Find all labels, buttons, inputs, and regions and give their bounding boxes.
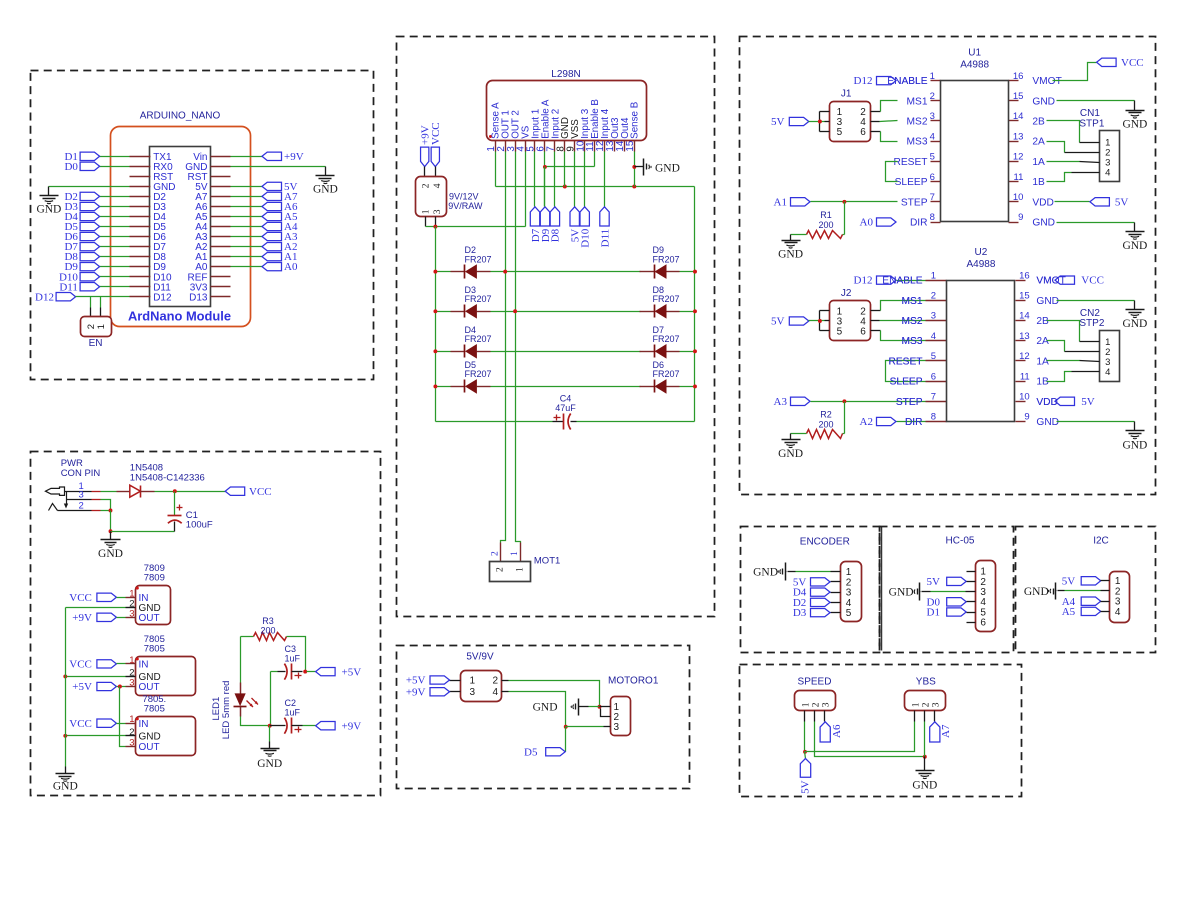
net label A1: [774, 196, 810, 208]
wire J2.4 to MS2: [871, 320, 926, 322]
svg-text:VCC: VCC: [1121, 57, 1144, 69]
svg-text:4: 4: [1115, 607, 1121, 618]
net label D5: [524, 746, 565, 758]
svg-text:1: 1: [930, 71, 935, 82]
svg-text:1: 1: [470, 675, 476, 686]
svg-text:8: 8: [931, 412, 936, 423]
diode D9 FR207: [640, 245, 680, 278]
net label D1: [64, 151, 99, 163]
svg-text:2: 2: [493, 675, 499, 686]
svg-text:FR207: FR207: [465, 294, 492, 304]
junction gnd bus 7805b: [63, 734, 67, 738]
IC U1 A4988: [887, 48, 1062, 229]
wire speed1 to ybs1: [805, 722, 915, 752]
net label 5V (ENCODER): [793, 577, 830, 589]
net label A0: [860, 217, 896, 229]
svg-text:5V: 5V: [799, 780, 811, 794]
wire A1 to STEP: [811, 201, 898, 203]
junction STEP U1: [842, 200, 846, 204]
svg-text:+5V: +5V: [72, 681, 92, 693]
svg-text:5V: 5V: [771, 116, 785, 128]
wire J1 left pins tied: [820, 112, 830, 132]
wire net D6 to pin D6: [100, 236, 130, 238]
wire jack pin2: [101, 510, 111, 512]
svg-text:VCC: VCC: [69, 659, 92, 671]
wire 2B to CN2.1: [1047, 321, 1100, 342]
net label D2: [64, 191, 99, 203]
svg-text:IN: IN: [139, 719, 149, 730]
svg-text:J2: J2: [841, 288, 852, 299]
wire RESET-SLEEP link U2: [886, 361, 926, 382]
svg-text:STP1: STP1: [1079, 119, 1104, 130]
connector HC-05: [976, 561, 996, 632]
net label D0 (HC-05): [927, 596, 976, 608]
svg-text:5V: 5V: [927, 576, 941, 588]
net label 5V: [262, 181, 298, 193]
connector J2: [830, 288, 871, 340]
connector J1: [830, 89, 871, 142]
net label D12 at U2 ENABLE: [854, 275, 926, 287]
wire diode row 2 left: [436, 311, 451, 313]
wire pin 6 to net D9: [544, 167, 546, 207]
junction right bus row 3: [693, 349, 697, 353]
wire diode row 3 middle: [491, 351, 641, 353]
wire SPEED.2 down: [815, 722, 925, 757]
svg-text:DIR: DIR: [910, 218, 928, 229]
net label D11 (under L298N): [599, 207, 611, 248]
wire J2 left pins tied: [820, 311, 830, 331]
IC ARDUINO_NANO chip body with pin names: [150, 147, 211, 307]
svg-text:ENCODER: ENCODER: [800, 537, 850, 548]
wire diode row 1 right: [680, 271, 695, 273]
svg-text:A1: A1: [774, 196, 787, 208]
net label D4 (ENCODER): [793, 587, 830, 599]
net label +9V: [262, 151, 304, 163]
svg-text:L298N: L298N: [551, 69, 580, 80]
svg-text:6: 6: [860, 127, 866, 138]
svg-text:GND: GND: [778, 448, 803, 460]
svg-text:VCC: VCC: [69, 592, 92, 604]
svg-text:2: 2: [496, 567, 506, 572]
svg-text:6: 6: [860, 327, 866, 338]
net label D12: [35, 291, 76, 303]
svg-text:D10: D10: [580, 228, 592, 247]
wire VCC to 7809 IN: [117, 597, 126, 599]
junction C2 row: [268, 724, 272, 728]
ground symbol U1 pin9: [1122, 223, 1147, 252]
svg-text:A0: A0: [860, 217, 874, 229]
svg-text:9: 9: [1024, 412, 1029, 423]
svg-text:D12: D12: [854, 75, 873, 87]
svg-text:7805: 7805: [144, 704, 165, 715]
connector CN1 STP1: [1079, 108, 1119, 181]
svg-text:5V: 5V: [1081, 396, 1095, 408]
svg-text:MS1: MS1: [902, 296, 923, 307]
svg-text:14: 14: [1013, 111, 1024, 122]
svg-text:200: 200: [260, 626, 275, 636]
net label VCC (power in): [225, 486, 271, 498]
svg-text:1uF: 1uF: [285, 708, 301, 718]
svg-text:GND: GND: [36, 203, 61, 215]
junction C3 row: [303, 670, 307, 674]
connector MOT1: [490, 543, 561, 582]
ground symbol below R1: [778, 235, 803, 261]
svg-text:GND: GND: [313, 183, 338, 195]
svg-text:7805: 7805: [144, 644, 165, 655]
svg-text:4: 4: [493, 687, 499, 698]
junction left bus row 1: [433, 270, 437, 274]
svg-text:1A: 1A: [1032, 157, 1045, 168]
wire 2A to CN2.2: [1047, 341, 1100, 352]
svg-text:3: 3: [129, 608, 134, 619]
svg-text:C3: C3: [285, 644, 297, 654]
svg-text:3: 3: [129, 737, 134, 748]
divider line: [881, 527, 883, 651]
svg-text:4: 4: [1105, 167, 1110, 178]
svg-text:MS2: MS2: [902, 316, 923, 327]
wire 1B to CN1.4: [1047, 173, 1100, 182]
svg-text:1B: 1B: [1032, 177, 1045, 188]
wire bottom bus right: [571, 421, 695, 423]
svg-text:OUT: OUT: [139, 682, 160, 693]
junction SPEED 5V: [803, 750, 807, 754]
wire D5 node to MOTORO1 pin3: [566, 726, 604, 728]
svg-text:GND: GND: [1122, 439, 1147, 451]
svg-text:GND: GND: [533, 702, 558, 714]
dashed region frame POWER: [31, 452, 381, 796]
net label D10: [59, 271, 100, 283]
wire 2A to CN1.2: [1047, 142, 1100, 153]
IC U L298N with pins: [486, 81, 647, 152]
net label D3: [64, 201, 99, 213]
wire VMOT to VCC: [1053, 63, 1097, 81]
svg-text:VMOT: VMOT: [1032, 76, 1061, 87]
wire pin15 SenseB down: [634, 152, 636, 187]
svg-text:11: 11: [1020, 371, 1030, 382]
svg-text:SLEEP: SLEEP: [890, 377, 923, 388]
wire diode row 4 right: [680, 386, 695, 388]
svg-text:+9V: +9V: [284, 151, 304, 163]
svg-text:GND: GND: [753, 567, 778, 579]
svg-text:5: 5: [846, 608, 852, 619]
LED LED1 5mm red: [211, 681, 258, 740]
net label 5V (SPEED): [799, 752, 811, 794]
svg-text:GND: GND: [778, 249, 803, 261]
svg-text:2: 2: [930, 91, 935, 102]
svg-text:1: 1: [931, 270, 936, 281]
svg-text:GND: GND: [53, 781, 78, 793]
junction D5 node: [564, 725, 568, 729]
ground symbol U2 pin9: [1122, 422, 1147, 452]
wire pin A3 to net A3: [231, 236, 263, 238]
wire ENCODER gnd: [788, 571, 831, 573]
svg-text:+9V: +9V: [406, 686, 426, 698]
net label A5: [262, 211, 298, 223]
svg-text:7: 7: [930, 192, 935, 203]
net label A5 (I2C): [1062, 606, 1110, 618]
wire diode row 3 left: [436, 351, 451, 353]
net label +9V (C2): [316, 720, 362, 732]
svg-text:VCC: VCC: [69, 718, 92, 730]
wire bottom bus left: [436, 421, 564, 423]
title L298N: [551, 69, 580, 80]
wire jack pin3 jog: [101, 500, 111, 511]
svg-text:47uF: 47uF: [555, 403, 576, 413]
wire diode to VCC: [155, 491, 226, 493]
svg-text:HC-05: HC-05: [946, 536, 975, 547]
svg-text:3: 3: [930, 111, 935, 122]
svg-text:15: 15: [1019, 291, 1030, 302]
wire pin 10 to net D10: [584, 152, 586, 207]
svg-text:I2C: I2C: [1093, 536, 1109, 547]
resistor R3 200: [254, 616, 287, 640]
svg-text:2: 2: [812, 702, 822, 707]
svg-text:D5: D5: [524, 746, 538, 758]
ground symbol MOTORO1: [533, 699, 600, 716]
junction pin8 bus: [563, 185, 567, 189]
wire net D7 to pin D7: [100, 246, 130, 248]
svg-text:EN: EN: [89, 338, 103, 349]
svg-text:STEP: STEP: [901, 197, 928, 208]
wire pin8 GND down: [564, 152, 566, 187]
svg-text:J1: J1: [841, 89, 852, 100]
svg-text:2: 2: [931, 291, 936, 302]
wire net D10 to pin D10: [100, 276, 130, 278]
wire pin1 SenseA down to ground bus: [495, 152, 497, 187]
connector I2C: [1110, 572, 1130, 623]
pin name overlay U2: [889, 296, 923, 428]
svg-text:MS1: MS1: [907, 96, 928, 107]
wire D5 vertical: [565, 727, 567, 752]
wire diode row 1 middle: [491, 271, 641, 273]
wire LED to C2 row: [241, 717, 270, 726]
wire YBS.2 down: [924, 722, 926, 757]
svg-text:A5: A5: [1062, 606, 1076, 618]
svg-text:DIR: DIR: [905, 417, 923, 428]
capacitor C2 1uF: [270, 698, 303, 734]
junction OUT2 row2: [513, 309, 517, 313]
net label 5V at J2: [771, 316, 809, 328]
wire pin A0 to net A0: [231, 266, 263, 268]
ground symbol I2C: [1024, 583, 1057, 600]
svg-text:D0: D0: [64, 161, 78, 173]
svg-text:+5V: +5V: [406, 675, 426, 687]
svg-text:VDD: VDD: [1036, 397, 1058, 408]
svg-text:D12: D12: [153, 292, 172, 303]
svg-text:14: 14: [1019, 311, 1030, 322]
wire 7805a GND to bus: [66, 676, 126, 678]
svg-text:9V/RAW: 9V/RAW: [448, 201, 483, 211]
svg-text:+9V: +9V: [342, 720, 362, 732]
wire diode row 1 left: [436, 271, 451, 273]
svg-text:4: 4: [1105, 367, 1110, 378]
diode D4 FR207: [451, 325, 492, 358]
svg-text:1A: 1A: [1036, 356, 1049, 367]
wire +9V to 7809 OUT: [117, 617, 126, 619]
capacitor C1 100uF: [168, 492, 213, 532]
net label D9: [64, 261, 99, 273]
dashed region frame I2C: [1016, 527, 1156, 653]
regulator 7805 second: [126, 694, 196, 756]
svg-text:R1: R1: [820, 210, 832, 220]
title ARDUINO_NANO: [140, 110, 221, 121]
svg-text:A2: A2: [860, 416, 873, 428]
wire pin 5V to net 5V: [231, 186, 263, 188]
svg-text:2: 2: [86, 324, 97, 329]
svg-text:16: 16: [1019, 270, 1030, 281]
ground symbol ENCODER: [753, 563, 786, 581]
connector EN: [81, 308, 112, 350]
pin stubs ARDUINO_NANO: [130, 157, 231, 297]
module body U ARDUINO_NANO outline: [111, 127, 251, 327]
junction gnd bus 7805a: [63, 674, 67, 678]
connector MOTORO1: [600, 675, 659, 735]
net label A6: [262, 201, 298, 213]
wire net D4 to pin D4: [100, 216, 130, 218]
svg-text:5V/9V: 5V/9V: [466, 652, 494, 663]
net label +5V (C3): [316, 666, 362, 678]
wire pin A2 to net A2: [231, 246, 263, 248]
wire pin A6 to net A6: [231, 206, 263, 208]
svg-text:ARDUINO_NANO: ARDUINO_NANO: [140, 110, 221, 121]
svg-text:GND: GND: [1024, 586, 1049, 598]
wire pin2 to MOTORO1 pin1: [509, 681, 600, 707]
junction left bus row 2: [433, 309, 437, 313]
wire 7809 GND to bus: [66, 607, 126, 609]
svg-text:1: 1: [129, 714, 134, 725]
svg-text:5V: 5V: [1115, 196, 1129, 208]
junction at connector pin3: [433, 225, 437, 229]
svg-text:GND: GND: [655, 162, 680, 174]
junction OUT1 row1: [503, 270, 507, 274]
ground symbol power input: [98, 532, 123, 561]
svg-text:RESET: RESET: [894, 157, 928, 168]
ground symbol U2 pin15: [1122, 301, 1147, 331]
svg-text:GND: GND: [139, 731, 161, 742]
wire 7805b GND to bus: [66, 735, 126, 737]
ground symbol HC-05: [889, 583, 921, 601]
svg-text:6: 6: [930, 172, 935, 183]
svg-text:3: 3: [931, 311, 936, 322]
svg-text:5V: 5V: [1062, 575, 1076, 587]
dashed region frame SPEED/YBS: [740, 665, 1022, 797]
svg-text:A6: A6: [831, 724, 843, 738]
svg-text:STEP: STEP: [896, 397, 923, 408]
net label 5V (under L298N): [570, 207, 582, 242]
wire GND15 U1: [1057, 100, 1135, 102]
wire regulators ground bus vertical: [65, 608, 67, 767]
svg-text:OUT: OUT: [139, 742, 160, 753]
wire 2B to CN1.1: [1047, 121, 1100, 143]
svg-text:12: 12: [1019, 351, 1030, 362]
svg-text:GND: GND: [98, 548, 123, 560]
svg-text:5V: 5V: [771, 316, 785, 328]
wire J1.4 to MS2: [871, 121, 898, 122]
junction 5V J1: [818, 120, 822, 124]
ground symbol regulators: [53, 767, 78, 793]
svg-text:1: 1: [912, 702, 922, 707]
wire pin 5 to net D7: [534, 152, 536, 207]
svg-text:2: 2: [490, 551, 500, 556]
connector YBS: [905, 691, 946, 722]
ground symbol LED branch: [257, 726, 282, 770]
wire diode row 2 right: [680, 311, 695, 313]
wire J2.6 to MS3: [871, 331, 926, 341]
svg-text:GND: GND: [1036, 417, 1059, 428]
wire gnd bus to C1: [111, 531, 175, 533]
svg-text:MS3: MS3: [907, 137, 928, 148]
svg-text:1: 1: [129, 655, 134, 666]
wire D12 to EN pin 1: [100, 297, 102, 308]
diode D8 FR207: [640, 285, 680, 318]
svg-text:VCC: VCC: [430, 122, 442, 145]
net label 5V at J1: [771, 116, 809, 128]
wire pin 12 to net D11: [604, 152, 606, 207]
title YBS: [916, 676, 936, 687]
wire pin A5 to net A5: [231, 216, 263, 218]
svg-text:D13: D13: [189, 292, 208, 303]
dashed region frame ARDUINO: [31, 71, 374, 380]
net label VCC (flag above connector): [430, 122, 442, 166]
net label VCC (U2): [1036, 275, 1104, 287]
svg-text:3: 3: [433, 209, 443, 214]
net label A0: [262, 261, 298, 273]
net label VCC (7809): [69, 592, 116, 604]
svg-text:11: 11: [1014, 172, 1024, 183]
wire net D3 to pin D3: [100, 206, 130, 208]
regulator 7805 first: [126, 634, 196, 695]
junction MOTORO1 pin1: [598, 705, 602, 709]
svg-text:10: 10: [1019, 392, 1030, 403]
svg-text:5: 5: [931, 351, 936, 362]
net label D9 (under L298N): [540, 207, 552, 242]
svg-text:D8: D8: [550, 228, 562, 242]
diode D 1N5408: [117, 463, 205, 498]
net label D12 at U1 ENABLE: [854, 75, 928, 87]
wire left bus: [435, 227, 437, 422]
svg-text:1: 1: [421, 209, 431, 214]
wire J1.6 to MS3: [871, 132, 898, 142]
svg-text:FR207: FR207: [653, 334, 680, 344]
wire STEP to R2: [843, 402, 845, 434]
stub HC-05 pin6: [967, 622, 976, 624]
dashed region frame ENCODER: [741, 527, 880, 653]
svg-text:U1: U1: [968, 48, 981, 59]
connector PWR barrel jack: [46, 481, 101, 511]
title PWR CON PIN: [61, 458, 101, 479]
wire pin3 OUT2 down to motor: [516, 152, 521, 543]
wire GND pin to ground (right): [231, 166, 326, 168]
wire GND pin to ground (left): [49, 186, 130, 188]
wire I2C gnd: [1058, 590, 1110, 592]
junction jack pin2: [109, 509, 113, 513]
svg-text:15: 15: [1013, 91, 1024, 102]
junction right bus row 4: [693, 384, 697, 388]
junction 5V J2: [818, 319, 822, 323]
ground symbol U1 pin15: [1122, 101, 1147, 131]
svg-text:FR207: FR207: [465, 254, 492, 264]
wire C3-C2 vertical: [270, 672, 272, 726]
title SPEED: [798, 676, 832, 687]
svg-text:3: 3: [129, 678, 134, 689]
svg-text:3: 3: [614, 722, 620, 733]
wire down to gnd node: [110, 511, 112, 532]
wire R3 right: [287, 637, 306, 672]
net label D7 (under L298N): [530, 207, 542, 242]
net label D4: [64, 211, 99, 223]
svg-text:A7: A7: [940, 724, 952, 738]
wire pin2 OUT1 down to motor: [501, 152, 506, 543]
